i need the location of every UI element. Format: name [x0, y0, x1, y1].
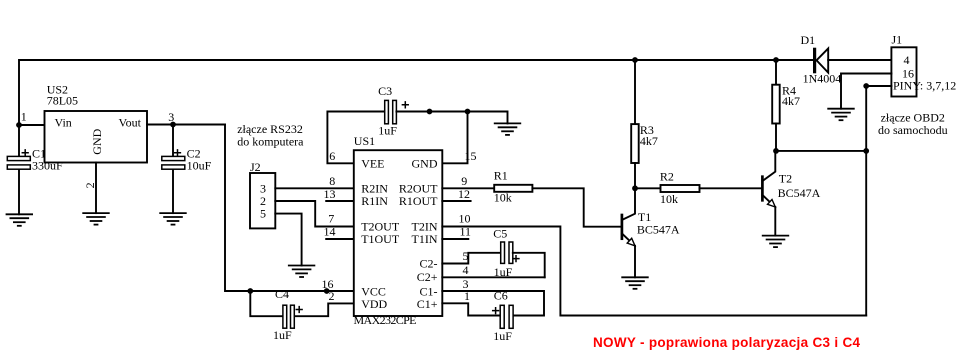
svg-text:T1OUT: T1OUT: [361, 232, 400, 246]
svg-text:C6: C6: [494, 289, 508, 303]
wire C1 bottom lead: [18, 169, 20, 214]
svg-text:4: 4: [463, 263, 469, 277]
ground below J1 pin16: [828, 109, 854, 121]
wire top +12V rail: [19, 60, 813, 125]
svg-text:2: 2: [329, 289, 335, 303]
svg-text:C4: C4: [275, 287, 289, 301]
wire US2 pin2 down: [95, 163, 97, 214]
svg-text:1uF: 1uF: [493, 329, 512, 343]
connector J1 box: [891, 47, 916, 96]
ground below US2 pin2: [83, 213, 109, 225]
wire R4 bottom lead: [775, 124, 777, 151]
svg-text:7: 7: [328, 212, 334, 226]
svg-text:do samochodu: do samochodu: [878, 123, 948, 137]
svg-text:C2-: C2-: [420, 257, 438, 271]
svg-text:BC547A: BC547A: [637, 223, 680, 237]
wire pin1 to C6 left: [442, 303, 499, 315]
wire VCC pin16: [250, 290, 354, 292]
svg-text:4: 4: [904, 53, 910, 67]
ground below T1: [622, 277, 648, 289]
svg-text:1uF: 1uF: [494, 265, 513, 279]
svg-text:R1OUT: R1OUT: [399, 194, 438, 208]
svg-text:VEE: VEE: [361, 156, 384, 170]
svg-text:do komputera: do komputera: [237, 135, 304, 149]
svg-text:T1IN: T1IN: [412, 232, 438, 246]
svg-text:8: 8: [329, 174, 335, 188]
node VCC pin16 junction: [324, 288, 330, 294]
node PINY junction: [863, 83, 869, 89]
wire C5 right to pin4: [513, 253, 545, 277]
svg-text:1uF: 1uF: [378, 124, 397, 138]
ground below J2 pin5: [289, 266, 315, 278]
ground below C1: [7, 214, 33, 226]
svg-text:13: 13: [324, 187, 336, 201]
svg-text:1: 1: [464, 289, 470, 303]
wire J1 pin16 to ground: [841, 74, 891, 109]
capacitor C2: [162, 156, 185, 160]
svg-text:15: 15: [465, 149, 477, 163]
svg-text:C2+: C2+: [417, 270, 438, 284]
svg-text:C5: C5: [493, 226, 507, 240]
svg-text:1: 1: [21, 110, 27, 124]
wire pin12 stub: [442, 200, 470, 202]
svg-text:330uF: 330uF: [32, 159, 63, 173]
svg-text:D1: D1: [801, 33, 816, 47]
wire pin10 T2IN to K-line: [442, 227, 866, 316]
node top rail R3 junction: [632, 57, 638, 63]
capacitor C6: [500, 305, 504, 328]
wire pin15 GND: [442, 112, 467, 164]
resistor R2: [661, 185, 700, 192]
resistor R4: [772, 85, 780, 124]
wire R2 to T2 base: [700, 187, 763, 189]
capacitor C4: [283, 305, 287, 328]
wire pin14 stub: [326, 238, 354, 240]
svg-text:1N4004: 1N4004: [803, 71, 842, 85]
svg-text:BC547A: BC547A: [778, 186, 821, 200]
wire pin5 to C5: [442, 253, 500, 264]
svg-text:5: 5: [463, 249, 469, 263]
svg-text:NOWY - poprawiona polaryzacja: NOWY - poprawiona polaryzacja C3 i C4: [593, 335, 860, 350]
wire C2 bottom lead: [172, 169, 174, 213]
transistor T2: [762, 151, 775, 181]
resistor R1: [494, 185, 532, 192]
diode D1: [813, 48, 816, 74]
svg-text:PINY: 3,7,12: PINY: 3,7,12: [893, 79, 956, 93]
wire C4 left leg: [250, 291, 283, 316]
node VCC left junction: [247, 288, 253, 294]
svg-text:R1IN: R1IN: [361, 194, 388, 208]
svg-text:4k7: 4k7: [782, 94, 800, 108]
wire R4 top lead: [775, 60, 777, 85]
transistor T1: [622, 188, 635, 220]
connector J2 box: [250, 173, 275, 228]
wire +5V down to VCC row: [225, 125, 250, 292]
node pin1 junction: [16, 122, 22, 128]
wire D1 anode to J1 pin4: [828, 59, 891, 61]
svg-text:C3: C3: [378, 84, 392, 98]
node R3 R2 T1 collector junction: [632, 185, 638, 191]
ground below C2: [160, 213, 186, 225]
svg-text:6: 6: [329, 149, 335, 163]
wire C4 right leg to VDD pin2: [294, 303, 354, 316]
wire pin13 stub: [326, 200, 354, 202]
svg-text:10: 10: [459, 212, 471, 226]
node R4 T2 collector junction: [773, 148, 779, 154]
capacitor C3: [385, 100, 389, 123]
svg-text:12: 12: [458, 187, 470, 201]
wire J2 pin2 to T2OUT: [275, 201, 354, 227]
svg-text:T2: T2: [779, 172, 792, 186]
wire R3 bottom lead: [634, 163, 636, 188]
capacitor C1: [7, 156, 30, 160]
node C3 net dot: [427, 109, 433, 115]
wire C1 top lead: [18, 125, 20, 156]
ground right of C3: [495, 123, 521, 134]
svg-text:10k: 10k: [660, 192, 678, 206]
svg-text:GND: GND: [412, 156, 438, 170]
svg-text:10uF: 10uF: [187, 159, 212, 173]
node pin15 branch dot: [465, 109, 471, 115]
svg-text:R1: R1: [494, 169, 508, 183]
wire R4 junction to K-line vertical: [776, 150, 866, 152]
svg-text:R2: R2: [660, 170, 674, 184]
wire C2 top lead: [172, 125, 174, 157]
resistor R3: [631, 124, 639, 163]
wire K-line vertical: [865, 86, 867, 316]
svg-text:2: 2: [83, 182, 97, 188]
wire J2 pin3 to R2IN: [275, 187, 354, 189]
svg-text:5: 5: [260, 207, 266, 221]
svg-text:11: 11: [460, 225, 472, 239]
svg-text:1uF: 1uF: [273, 328, 292, 342]
wire pin3 to C6 right: [442, 291, 544, 316]
svg-text:C1+: C1+: [417, 297, 438, 311]
svg-text:Vout: Vout: [119, 116, 142, 130]
wire R1 to T1 base: [532, 188, 622, 226]
wire pin11 stub: [442, 238, 468, 240]
svg-text:14: 14: [324, 225, 336, 239]
svg-text:10k: 10k: [494, 191, 512, 205]
wire J1 PINY row: [866, 85, 891, 87]
node top rail R4 junction: [773, 57, 779, 63]
svg-text:US1: US1: [354, 134, 375, 148]
wire junction to R2: [635, 187, 661, 189]
svg-text:4k7: 4k7: [640, 134, 658, 148]
wire C3 right to ground: [396, 112, 507, 124]
svg-text:Vin: Vin: [55, 116, 72, 130]
wire pin4: [442, 276, 544, 278]
svg-text:GND: GND: [90, 128, 104, 154]
wire pin9 to R1: [442, 187, 494, 189]
op-amp US2 regulator box: [45, 111, 148, 163]
svg-text:3: 3: [168, 110, 174, 124]
capacitor C5: [501, 242, 505, 263]
svg-text:9: 9: [461, 174, 467, 188]
wire pin1 to US2 Vin: [19, 124, 45, 126]
node K-line junction: [863, 148, 869, 154]
ground below T2: [763, 236, 789, 248]
svg-text:VDD: VDD: [361, 297, 387, 311]
IC US1 MAX232 box: [354, 150, 443, 316]
svg-text:MAX232CPE: MAX232CPE: [354, 313, 417, 327]
svg-text:J1: J1: [892, 33, 903, 47]
wire R3 top lead: [634, 60, 636, 124]
wire pin6 VEE to C3: [327, 112, 384, 164]
svg-text:78L05: 78L05: [47, 94, 78, 108]
svg-text:J2: J2: [250, 160, 261, 174]
wire J2 pin5 to ground: [275, 214, 301, 266]
node pin3 junction: [170, 122, 176, 128]
wire US2 Vout pin3: [147, 124, 225, 126]
